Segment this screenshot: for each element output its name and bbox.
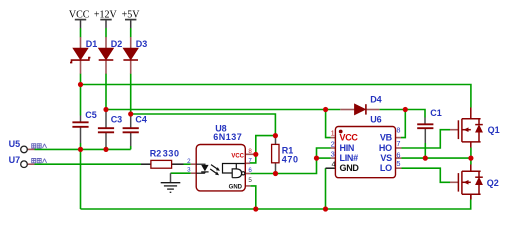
- svg-text:4: 4: [331, 159, 335, 168]
- svg-text:2: 2: [331, 140, 335, 149]
- svg-text:GND: GND: [229, 184, 243, 190]
- svg-text:U5: U5: [9, 139, 21, 149]
- svg-text:VB: VB: [380, 133, 393, 143]
- svg-text:C1: C1: [430, 108, 442, 118]
- svg-text:HIN: HIN: [340, 143, 355, 153]
- svg-text:LIN#: LIN#: [340, 153, 359, 163]
- svg-text:U6: U6: [370, 115, 382, 125]
- svg-text:Q2: Q2: [487, 178, 499, 188]
- svg-text:VCC: VCC: [69, 10, 90, 21]
- svg-text:VCC: VCC: [340, 133, 359, 143]
- svg-text:LO: LO: [380, 163, 392, 173]
- svg-text:C5: C5: [85, 110, 97, 120]
- svg-text:D1: D1: [86, 39, 98, 49]
- svg-text:8: 8: [248, 148, 252, 155]
- svg-text:8: 8: [396, 126, 400, 135]
- svg-text:C4: C4: [135, 115, 147, 125]
- svg-text:D2: D2: [111, 39, 123, 49]
- svg-text:D3: D3: [136, 39, 148, 49]
- svg-text:3: 3: [187, 167, 191, 174]
- svg-text:330: 330: [163, 149, 180, 159]
- svg-text:7: 7: [396, 139, 400, 148]
- svg-text:U7: U7: [9, 155, 21, 165]
- svg-text:470: 470: [282, 155, 299, 165]
- svg-text:3: 3: [331, 150, 335, 159]
- svg-text:+5V: +5V: [122, 10, 141, 21]
- svg-text:2: 2: [187, 158, 191, 165]
- svg-text:5: 5: [396, 159, 400, 168]
- svg-text:6: 6: [248, 167, 252, 174]
- svg-text:6N137: 6N137: [213, 132, 242, 142]
- svg-text:VS: VS: [380, 153, 392, 163]
- svg-text:R2: R2: [150, 149, 162, 159]
- svg-text:D4: D4: [370, 95, 382, 105]
- svg-text:1: 1: [331, 128, 335, 137]
- svg-text:C3: C3: [111, 115, 123, 125]
- svg-text:7: 7: [248, 158, 252, 165]
- svg-text:GND: GND: [340, 163, 360, 173]
- svg-text:5: 5: [248, 177, 252, 184]
- svg-text:HO: HO: [379, 143, 392, 153]
- svg-text:Q1: Q1: [488, 125, 500, 135]
- svg-text:+12V: +12V: [94, 10, 118, 21]
- svg-text:VCC: VCC: [231, 154, 244, 160]
